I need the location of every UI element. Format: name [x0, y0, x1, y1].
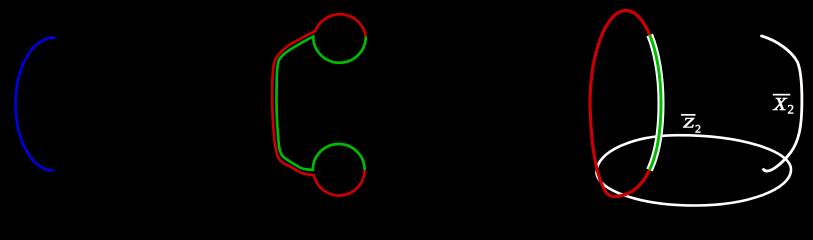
- blue arc (left figure): [16, 38, 55, 171]
- right figure: white horizontal ellipse: [597, 135, 792, 205]
- right figure: green arc: [650, 35, 662, 170]
- right figure: white halo under green: [650, 35, 662, 170]
- right figure: red oval: [590, 11, 661, 197]
- right figure: white C arc (X2 loop): [762, 36, 802, 171]
- svg-text:X: X: [772, 94, 787, 114]
- label Z2bar: [681, 114, 701, 136]
- svg-text:2: 2: [788, 102, 795, 117]
- svg-text:2: 2: [695, 122, 701, 136]
- svg-text:Z: Z: [683, 116, 695, 132]
- middle figure: green curve (inner): [276, 37, 365, 171]
- label X2bar: [772, 94, 794, 117]
- middle figure: red curve (outer): [272, 14, 366, 195]
